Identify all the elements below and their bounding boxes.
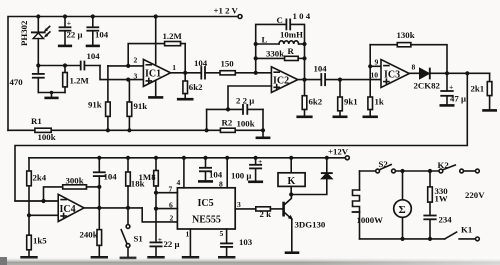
wire 555 pin4 xyxy=(183,158,185,188)
svg-text:104: 104 xyxy=(87,51,101,61)
wire IC1 pin2 input xyxy=(108,65,143,67)
wire 555 pin1 ground xyxy=(183,229,198,257)
svg-text:S1: S1 xyxy=(134,234,143,244)
svg-text:104: 104 xyxy=(104,172,118,182)
svg-text:150: 150 xyxy=(221,58,235,68)
resistor 91k right xyxy=(127,80,132,131)
resistor 130k feedback IC3 xyxy=(370,43,447,74)
svg-text:9: 9 xyxy=(375,58,379,67)
svg-text:4: 4 xyxy=(177,178,181,187)
node dots bottom row xyxy=(106,128,265,132)
capacitor 104 top-left xyxy=(87,17,98,46)
wire R1 R2 bottom row xyxy=(8,129,263,131)
resistor 1.2M feedback of IC1 xyxy=(128,42,185,73)
ground at R2 right xyxy=(257,130,269,138)
svg-text:IC2: IC2 xyxy=(273,76,289,87)
wire IC3 output xyxy=(409,72,489,74)
svg-text:100k: 100k xyxy=(38,132,56,142)
svg-text:2CK82: 2CK82 xyxy=(414,81,441,91)
svg-text:2 k: 2 k xyxy=(260,209,272,219)
resistor 91k left xyxy=(106,66,111,130)
diode flyback across relay xyxy=(291,158,332,195)
svg-text:+: + xyxy=(158,235,162,244)
svg-text:L: L xyxy=(262,35,268,45)
wire IC1 output xyxy=(171,72,202,74)
svg-text:91k: 91k xyxy=(134,101,148,111)
svg-text:+: + xyxy=(258,157,262,166)
svg-text:9k1: 9k1 xyxy=(344,97,358,107)
resistor 330 1W xyxy=(428,171,433,215)
svg-text:234: 234 xyxy=(439,215,453,225)
relay contact K2 xyxy=(439,165,479,173)
capacitor 104 coupling to IC1 xyxy=(81,62,144,80)
svg-text:330k: 330k xyxy=(266,49,284,59)
svg-text:NE555: NE555 xyxy=(192,215,221,226)
svg-text:6k2: 6k2 xyxy=(189,82,203,92)
svg-text:10mH: 10mH xyxy=(280,30,303,40)
svg-text:2 2 μ: 2 2 μ xyxy=(236,96,254,106)
resistor 18k xyxy=(126,158,131,208)
svg-text:10: 10 xyxy=(371,71,379,80)
wire IC4 inverting input xyxy=(15,200,58,202)
resistor R 330k feedback xyxy=(256,56,305,60)
wire IC3 pin9 xyxy=(370,65,381,67)
svg-text:103: 103 xyxy=(239,237,253,247)
svg-text:220V: 220V xyxy=(465,190,485,200)
capacitor 104 bypass at 555 xyxy=(199,158,211,182)
ground for 470/1.2M node xyxy=(46,91,58,98)
svg-text:3: 3 xyxy=(237,200,241,209)
ground for 104 xyxy=(87,45,99,48)
resistor 1k5 xyxy=(22,215,37,257)
svg-text:+12V: +12V xyxy=(328,147,349,157)
svg-text:Σ: Σ xyxy=(399,204,406,216)
svg-text:240k: 240k xyxy=(80,230,98,240)
wire long feed to IC4 xyxy=(15,73,467,201)
svg-text:K2: K2 xyxy=(438,160,450,170)
switch S2 xyxy=(376,165,396,173)
node junction dots lower rail xyxy=(97,156,329,160)
node dots IC3 output xyxy=(445,71,470,75)
diode 2CK82 xyxy=(420,69,430,79)
wire 555 pin7 xyxy=(156,192,177,194)
node IC2 output dot xyxy=(302,78,306,82)
svg-text:+: + xyxy=(449,83,453,92)
svg-text:104: 104 xyxy=(314,64,328,74)
svg-text:IC5: IC5 xyxy=(198,198,214,209)
svg-text:470: 470 xyxy=(10,77,24,87)
svg-text:3: 3 xyxy=(134,72,138,81)
capacitor C 104 feedback top row xyxy=(256,19,305,79)
capacitor 22u at 555 xyxy=(149,242,164,257)
node dot 9k1 xyxy=(338,78,342,82)
capacitor 470 xyxy=(33,66,65,93)
wire S2 row top of 220V circuit xyxy=(360,170,440,172)
node dot photodiode row xyxy=(36,63,67,67)
svg-text:1k5: 1k5 xyxy=(33,236,47,246)
svg-text:R: R xyxy=(288,46,295,56)
wire photodiode node row xyxy=(38,65,80,67)
motor M sigma xyxy=(394,171,412,239)
wire 555 pin8 xyxy=(226,158,228,188)
svg-text:1k: 1k xyxy=(375,97,384,107)
node +12V terminal lower xyxy=(345,156,349,160)
svg-text:8: 8 xyxy=(412,63,416,72)
svg-text:3DG130: 3DG130 xyxy=(295,220,326,230)
resistor 300k feedback IC4 xyxy=(44,185,100,201)
svg-text:1.2M: 1.2M xyxy=(163,31,183,41)
photodiode PH302 xyxy=(32,17,50,66)
node feedback column dots xyxy=(254,42,307,61)
wire bottom row 220V circuit xyxy=(360,238,445,240)
wire left border and +12V top rail xyxy=(8,17,238,131)
node dot IC3 pin9 xyxy=(368,64,372,68)
svg-text:22 μ: 22 μ xyxy=(164,239,180,249)
heater 1000W xyxy=(353,171,360,239)
op-amp IC1 xyxy=(143,17,170,87)
svg-text:7: 7 xyxy=(169,185,173,194)
resistor 6k2 at IC2 output xyxy=(298,80,312,117)
node dots IC1 inputs xyxy=(126,64,130,82)
svg-text:6: 6 xyxy=(169,201,173,210)
node dots 1M8 column xyxy=(154,191,158,211)
svg-text:K: K xyxy=(288,176,296,187)
svg-text:PH302: PH302 xyxy=(19,20,29,46)
relay coil K xyxy=(278,158,305,195)
svg-text:1: 1 xyxy=(186,230,190,239)
svg-text:1.2M: 1.2M xyxy=(70,76,90,86)
svg-text:100 μ: 100 μ xyxy=(231,171,251,181)
svg-text:R2: R2 xyxy=(222,118,233,128)
svg-text:IC1: IC1 xyxy=(145,69,161,80)
wire IC4 output to 555 pin2 xyxy=(84,208,177,222)
svg-text:+: + xyxy=(67,19,71,28)
capacitor 104 on 300k column xyxy=(94,158,105,208)
node dots IC4 output line xyxy=(97,185,130,210)
node dot IC4 inverting xyxy=(41,199,45,203)
svg-text:IC3: IC3 xyxy=(384,70,400,81)
svg-text:22 μ: 22 μ xyxy=(67,30,83,40)
svg-text:1M8: 1M8 xyxy=(139,172,157,182)
node dots 220V bottom row xyxy=(400,237,432,241)
wire IC4 + input xyxy=(29,214,58,216)
svg-text:91k: 91k xyxy=(88,100,102,110)
inductor L 10mH xyxy=(256,41,305,44)
svg-text:1: 1 xyxy=(172,63,176,72)
node dot 22u to IC2 xyxy=(226,107,230,111)
svg-text:104: 104 xyxy=(194,58,208,68)
resistor R1 100k xyxy=(35,128,51,132)
svg-text:130k: 130k xyxy=(397,30,415,40)
capacitor 234 xyxy=(424,216,435,239)
capacitor 22u horizontal near R2 xyxy=(207,105,263,130)
resistor 150 xyxy=(220,71,271,75)
svg-text:8: 8 xyxy=(219,180,223,189)
capacitor 22u top-left xyxy=(60,17,71,46)
wire +12V lower rail xyxy=(29,157,345,159)
wire 555 pin6 xyxy=(156,208,177,210)
svg-text:47 μ: 47 μ xyxy=(450,94,466,104)
svg-text:2: 2 xyxy=(134,56,138,65)
svg-text:1W: 1W xyxy=(435,194,448,204)
wire 555 pin3 output xyxy=(235,208,256,210)
node dots 220V top row xyxy=(400,169,432,173)
resistor 2k xyxy=(256,207,283,211)
svg-text:S2: S2 xyxy=(379,159,389,169)
resistor R2 100k xyxy=(220,128,235,132)
resistor 2k4 xyxy=(27,158,32,216)
wire IC2 + input xyxy=(228,86,271,109)
resistor 9k1 xyxy=(334,80,346,117)
svg-text:K1: K1 xyxy=(461,225,472,235)
wire IC2 output xyxy=(298,79,321,81)
op-amp IC2 xyxy=(271,67,297,93)
svg-text:104: 104 xyxy=(95,30,109,40)
ground for 22u xyxy=(59,45,71,48)
svg-text:100k: 100k xyxy=(237,119,255,129)
resistor 1M8 xyxy=(154,158,159,242)
svg-text:2k4: 2k4 xyxy=(33,173,47,183)
capacitor 100u xyxy=(249,158,261,182)
resistor 2k1 xyxy=(484,73,496,110)
transistor 3DG130 xyxy=(284,195,298,253)
svg-text:2: 2 xyxy=(170,214,174,223)
svg-text:2k1: 2k1 xyxy=(471,84,485,94)
resistor 1.2M vertical xyxy=(63,66,68,93)
node dot IC4 plus xyxy=(27,213,31,217)
svg-text:1 0 4: 1 0 4 xyxy=(293,11,311,21)
op-amp IC4 xyxy=(58,194,84,221)
relay contact K1 xyxy=(445,232,480,241)
node IC2 inverting input dot xyxy=(254,71,258,75)
switch S1 xyxy=(121,208,135,258)
capacitor 47u xyxy=(441,73,453,105)
svg-text:104: 104 xyxy=(209,170,223,180)
svg-text:1000W: 1000W xyxy=(357,215,384,225)
svg-text:C: C xyxy=(277,15,283,25)
svg-text:6k2: 6k2 xyxy=(309,97,323,107)
node junction dots on top rail xyxy=(36,14,158,18)
op-amp IC3 xyxy=(381,60,409,88)
svg-text:300k: 300k xyxy=(66,176,84,186)
svg-text:+1 2 V: +1 2 V xyxy=(214,6,239,16)
capacitor 104 coupling IC1-IC2 xyxy=(201,67,220,79)
capacitor 104 coupling IC2-IC3 xyxy=(321,74,381,85)
resistor 6k2 at IC1 output xyxy=(178,73,192,99)
node +12V terminal top xyxy=(238,15,242,19)
capacitor 103 on 555 pin5 xyxy=(219,229,234,257)
svg-text:R1: R1 xyxy=(31,116,42,126)
node IC1 output dot xyxy=(183,71,187,75)
resistor 1k xyxy=(364,45,377,117)
svg-text:IC4: IC4 xyxy=(60,204,76,215)
ground IC1 xyxy=(149,81,162,98)
svg-text:5: 5 xyxy=(220,229,224,238)
node dot collector xyxy=(289,192,293,196)
IC5 NE555 box xyxy=(177,188,235,229)
resistor 240k xyxy=(92,208,107,257)
